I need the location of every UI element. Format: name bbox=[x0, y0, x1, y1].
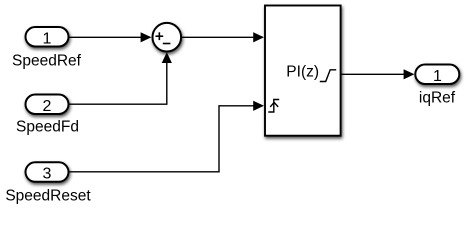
sum minus sign bbox=[163, 43, 171, 45]
PI(z) block bbox=[265, 6, 341, 136]
svg-text:SpeedReset: SpeedReset bbox=[5, 187, 91, 204]
svg-text:SpeedFd: SpeedFd bbox=[16, 119, 79, 136]
inport 3 SpeedReset bbox=[26, 162, 69, 182]
svg-text:1: 1 bbox=[433, 68, 442, 85]
saturation icon bbox=[320, 70, 336, 82]
sum block bbox=[153, 23, 182, 52]
arrowhead into trigger input bbox=[253, 101, 264, 111]
wire PI block to outport bbox=[342, 73, 405, 75]
svg-text:3: 3 bbox=[43, 166, 52, 183]
wire port2 to sum bottom bbox=[68, 63, 167, 105]
inport 2 SpeedFd bbox=[26, 95, 69, 115]
svg-text:2: 2 bbox=[43, 98, 52, 115]
wire port3 to trigger input bbox=[68, 106, 255, 172]
arrowhead into outport bbox=[404, 69, 415, 79]
svg-text:SpeedRef: SpeedRef bbox=[12, 53, 82, 70]
svg-text:PI(z): PI(z) bbox=[286, 64, 319, 81]
wire port1 to sum bbox=[68, 36, 142, 38]
arrowhead into sum left bbox=[141, 32, 152, 42]
svg-text:iqRef: iqRef bbox=[419, 90, 456, 107]
svg-text:1: 1 bbox=[43, 31, 52, 48]
sum plus sign bbox=[156, 32, 164, 40]
arrowhead into PI block bbox=[253, 32, 264, 42]
wire sum to PI block bbox=[182, 36, 255, 38]
outport 1 iqRef bbox=[415, 65, 459, 86]
arrowhead into sum bottom bbox=[162, 52, 172, 63]
inport 1 SpeedRef bbox=[26, 27, 69, 48]
trigger icon bbox=[268, 100, 279, 113]
